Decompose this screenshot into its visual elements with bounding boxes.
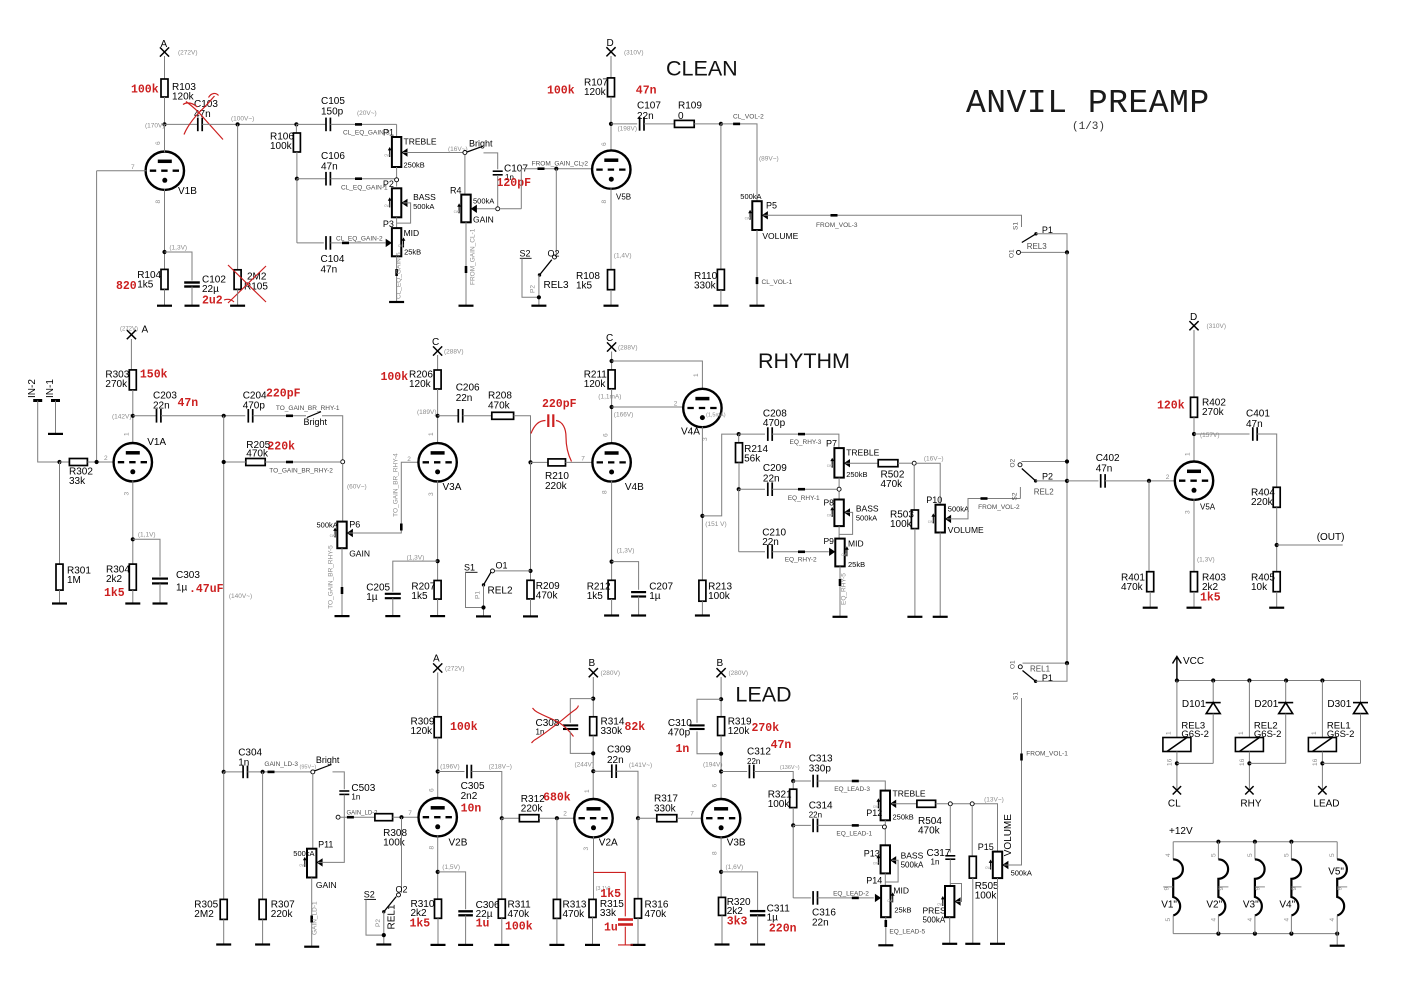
wire anode node to C107 series <box>611 123 637 125</box>
svg-text:P2: P2 <box>383 179 394 189</box>
node A supply (rhythm) <box>127 330 136 339</box>
svg-text:G6S-2: G6S-2 <box>1181 729 1208 740</box>
wire P10 bottom ground <box>939 533 941 617</box>
svg-text:GAIN: GAIN <box>473 215 494 225</box>
ground P6 <box>335 615 350 617</box>
node D supply (clean) <box>606 47 615 56</box>
svg-text:C107: C107 <box>637 101 661 112</box>
svg-text:P9: P9 <box>824 536 835 546</box>
svg-text:500kA: 500kA <box>293 849 314 858</box>
wire C306 ground <box>465 915 467 945</box>
svg-text:D: D <box>1190 312 1197 323</box>
svg-text:100k: 100k <box>547 85 575 98</box>
wire C207 ground <box>638 597 640 616</box>
svg-text:LEAD: LEAD <box>1313 799 1339 810</box>
potentiometer P5 VOLUME (clean) <box>752 201 761 230</box>
svg-text:TREBLE: TREBLE <box>846 448 879 458</box>
wire V1B anode <box>164 124 166 152</box>
wire REL2 coil to diode anode <box>1248 752 1250 791</box>
svg-text:cw: cw <box>928 519 934 524</box>
potentiometer P12 TREBLE (lead) <box>881 791 890 821</box>
switch relay contact REL1/P1 (lead right) <box>1018 665 1022 669</box>
svg-text:1: 1 <box>1238 731 1245 735</box>
svg-text:5: 5 <box>1247 853 1254 857</box>
svg-text:A: A <box>142 325 149 336</box>
svg-text:REL1: REL1 <box>1030 665 1051 674</box>
svg-text:V3B: V3B <box>727 838 746 849</box>
wire R110 ground <box>720 290 722 306</box>
wire OUT <box>1277 544 1343 546</box>
wire P2 wiper tie <box>397 203 411 223</box>
svg-text:1u: 1u <box>604 922 618 935</box>
svg-text:220k: 220k <box>267 441 295 454</box>
svg-text:cw: cw <box>299 862 305 867</box>
svg-text:1: 1 <box>693 373 700 377</box>
svg-text:B: B <box>717 658 724 669</box>
svg-text:D: D <box>607 38 614 49</box>
wire P8 wiper tie <box>839 512 853 534</box>
resistor R319 <box>718 717 725 736</box>
svg-text:REL1: REL1 <box>387 904 398 929</box>
potentiometer P15 VOLUME (lead) <box>993 852 1002 879</box>
wire R321 to row2 <box>792 808 794 826</box>
resistor R205 <box>246 459 265 466</box>
svg-text:1n: 1n <box>536 728 545 737</box>
svg-text:100k: 100k <box>131 84 159 97</box>
wire R209 ground <box>530 599 532 617</box>
node 198V junction <box>609 122 613 126</box>
svg-text:8: 8 <box>601 200 608 204</box>
wire P1 wiper to bright node <box>403 152 462 154</box>
capacitor C103 (crossed out) <box>198 118 202 132</box>
ground C303 <box>153 602 168 604</box>
wire P11 top <box>312 774 314 849</box>
wire C303 ground <box>159 584 161 604</box>
potentiometer P1 TREBLE <box>392 137 401 167</box>
svg-text:470k: 470k <box>246 449 269 460</box>
wire R315 ground <box>592 917 594 945</box>
wire P11 wiper tie to C503 node <box>318 817 344 862</box>
svg-text:FROM_GAIN_CL-1: FROM_GAIN_CL-1 <box>470 228 477 285</box>
svg-text:V4A: V4A <box>681 427 700 438</box>
svg-text:2: 2 <box>563 811 567 818</box>
capacitor C317 <box>945 856 955 859</box>
red mod electrolytic 1u on cathode <box>594 872 634 945</box>
svg-text:22n: 22n <box>763 474 780 485</box>
svg-text:120pF: 120pF <box>497 177 532 190</box>
svg-text:(60V~): (60V~) <box>347 484 367 491</box>
svg-text:S1: S1 <box>464 563 475 573</box>
svg-text:(142V): (142V) <box>112 414 132 421</box>
svg-text:FROM_VOL-2: FROM_VOL-2 <box>978 504 1020 511</box>
wire REL1 node down <box>401 817 403 893</box>
wire R110 down <box>720 124 722 270</box>
svg-text:P15: P15 <box>978 842 994 852</box>
svg-text:C401: C401 <box>1246 409 1270 420</box>
svg-text:cw: cw <box>873 860 879 865</box>
node 1,3V junction <box>436 559 440 563</box>
svg-text:P12: P12 <box>866 808 882 818</box>
resistor R212 <box>608 580 615 599</box>
wire cathode to C303 <box>133 539 160 576</box>
wire PRES bottom ground <box>949 917 951 944</box>
svg-text:9: 9 <box>1291 887 1298 891</box>
capacitor C401 <box>1253 427 1257 441</box>
node A supply (clean) <box>160 47 169 56</box>
wire junction to R305 <box>223 772 225 900</box>
wire R103 to node 170V <box>164 97 166 150</box>
svg-text:C: C <box>432 337 439 348</box>
svg-text:(272V): (272V) <box>445 666 465 673</box>
capacitor C309 <box>612 764 616 778</box>
ground R4 <box>459 305 474 307</box>
diode D301 <box>1360 681 1362 703</box>
wire rail down to REL2 node <box>530 462 532 580</box>
svg-text:5: 5 <box>1283 853 1290 857</box>
svg-text:250kB: 250kB <box>404 161 425 170</box>
svg-text:1n: 1n <box>931 858 940 867</box>
svg-text:4: 4 <box>1329 918 1336 922</box>
svg-text:C303: C303 <box>176 570 200 581</box>
wire C402 to V5A grid <box>1105 480 1176 482</box>
resistor R110 <box>717 269 724 290</box>
svg-text:16: 16 <box>1312 758 1319 766</box>
svg-text:22n: 22n <box>153 401 170 412</box>
node 166V junction <box>610 405 614 409</box>
svg-text:(198V): (198V) <box>618 126 638 133</box>
svg-text:25kB: 25kB <box>894 906 911 915</box>
wire anode to C305 <box>438 771 465 773</box>
svg-text:P1: P1 <box>475 591 482 599</box>
svg-text:P5: P5 <box>766 201 777 211</box>
wire C210 to P9 wiper with net EQ_RHY-2 <box>772 551 829 553</box>
svg-text:470p: 470p <box>668 728 691 739</box>
svg-text:(157V): (157V) <box>1200 432 1220 439</box>
capacitor C106 <box>297 178 326 180</box>
switch REL3 (clean mute) <box>553 255 557 259</box>
wire R206 to anode <box>437 389 439 444</box>
svg-text:120k: 120k <box>409 379 432 390</box>
svg-text:CL_EQ_GAIN-5: CL_EQ_GAIN-5 <box>396 252 403 299</box>
resistor R303 <box>129 370 136 390</box>
wire R505 branch <box>971 806 973 857</box>
wire bright node down to R4 <box>464 155 466 195</box>
svg-text:G6S-2: G6S-2 <box>1327 729 1354 740</box>
svg-text:GAIN_LD-1: GAIN_LD-1 <box>312 901 319 935</box>
wire C104 to P3 wiper with net CL_EQ_GAIN-2 <box>330 242 385 244</box>
wire R210 to V4B grid <box>566 461 593 463</box>
svg-text:7: 7 <box>408 810 412 817</box>
triode V5A <box>1175 462 1213 500</box>
ground R110 <box>713 305 728 307</box>
ground R213 <box>695 614 710 616</box>
resistor R401 <box>1147 572 1154 592</box>
svg-text:100k: 100k <box>975 891 998 902</box>
svg-text:EQ_RHY-1: EQ_RHY-1 <box>788 495 820 502</box>
capacitor C204 <box>248 409 252 423</box>
node 244V junction <box>591 769 595 773</box>
wire node to R205 <box>224 461 246 463</box>
svg-text:120k: 120k <box>411 726 434 737</box>
svg-text:470p: 470p <box>763 418 786 429</box>
ground P10 <box>933 616 948 618</box>
wire FROM_GAIN_CL-2 to V5B grid <box>521 168 593 170</box>
wire R316 down <box>637 818 639 899</box>
wire R210 row <box>531 461 549 463</box>
svg-text:cw: cw <box>454 209 460 214</box>
wire R109 to CL_VOL-2 node <box>694 123 721 125</box>
svg-text:REL3: REL3 <box>1027 242 1048 251</box>
svg-text:470k: 470k <box>563 909 586 920</box>
potentiometer P3 MID <box>392 228 401 256</box>
svg-text:FROM_VOL-3: FROM_VOL-3 <box>816 222 858 229</box>
wire R301 down <box>59 462 61 564</box>
svg-text:1: 1 <box>1311 731 1318 735</box>
wire cathode node to C102 <box>165 252 193 281</box>
wire C401 to R404 <box>1257 434 1277 487</box>
ground PRES <box>942 943 957 945</box>
wire C204 to bright rhythm with net TO_GAIN_BR_RHY-1 <box>253 415 306 417</box>
svg-text:S1: S1 <box>1013 692 1020 700</box>
svg-text:V5B: V5B <box>616 193 631 202</box>
node R314 bottom junction <box>591 751 595 755</box>
capacitor C503 <box>339 791 349 794</box>
svg-text:100k: 100k <box>768 799 791 810</box>
svg-text:+12V: +12V <box>1169 826 1193 837</box>
wire heater top bus <box>1173 841 1337 843</box>
ground C102 <box>185 305 200 307</box>
wire D to R402 <box>1193 330 1195 397</box>
ground REL1 <box>376 943 391 945</box>
svg-text:V4B: V4B <box>625 482 644 493</box>
capacitor C107 shunt 120pF <box>493 171 503 175</box>
wire R105 to ground <box>237 289 239 305</box>
wire node to C103 <box>165 123 198 125</box>
svg-text:(100V~): (100V~) <box>231 116 254 123</box>
svg-text:1µ: 1µ <box>366 592 378 603</box>
svg-text:(1,6V): (1,6V) <box>726 864 744 871</box>
wire long vertical to LEAD <box>223 416 225 772</box>
svg-text:2: 2 <box>104 455 108 462</box>
potentiometer P13 BASS (lead) <box>884 820 886 845</box>
svg-text:CL_EQ_GAIN-1: CL_EQ_GAIN-1 <box>341 185 388 192</box>
svg-text:V1": V1" <box>1161 900 1177 911</box>
svg-text:R109: R109 <box>678 101 702 112</box>
svg-text:IN-1: IN-1 <box>45 379 56 398</box>
svg-text:P1: P1 <box>1042 673 1053 683</box>
wire V5A cathode <box>1193 499 1195 571</box>
wire VCC bus <box>1177 680 1361 682</box>
capacitor C304 <box>224 771 243 773</box>
svg-text:(288V): (288V) <box>618 345 638 352</box>
wire R205 to P6 rail with net TO_GAIN_BR_RHY-2 <box>265 461 341 463</box>
bypass wire C310 bottom <box>697 731 721 753</box>
svg-text:2n2: 2n2 <box>461 791 478 802</box>
wire anode to C309 <box>593 770 612 772</box>
svg-text:V2B: V2B <box>449 838 468 849</box>
svg-text:500kA: 500kA <box>901 861 924 870</box>
wire C206 to R208 <box>463 415 492 417</box>
node bright-lead open <box>311 770 315 774</box>
svg-text:V1A: V1A <box>147 437 166 448</box>
ground R108 <box>604 305 619 307</box>
svg-text:MID: MID <box>848 539 864 549</box>
svg-text:VOLUME: VOLUME <box>762 231 798 241</box>
capacitor C306 electrolytic <box>458 911 473 915</box>
svg-text:TO_GAIN_BR_RHY-1: TO_GAIN_BR_RHY-1 <box>276 405 340 412</box>
svg-text:EQ_RHY-3: EQ_RHY-3 <box>790 439 822 446</box>
ground R403 <box>1187 607 1202 609</box>
wire input row to R302 <box>60 461 70 463</box>
wire R307 ground <box>262 919 264 944</box>
svg-text:C312: C312 <box>747 747 771 758</box>
node 194V junction <box>719 769 723 773</box>
wire REL3 coil to diode anode <box>1176 752 1178 791</box>
resistor R305 <box>220 899 227 919</box>
ground R505 <box>965 943 980 945</box>
rhythm EQ ladder row 3 C210 <box>739 551 765 553</box>
svg-text:CL_VOL-1: CL_VOL-1 <box>762 279 793 286</box>
wire R316 ground <box>637 918 639 945</box>
svg-text:6: 6 <box>712 784 719 788</box>
svg-text:VOLUME: VOLUME <box>948 525 984 535</box>
relay coil REL3 G6S-2 <box>1176 681 1178 738</box>
wire A to R303 <box>130 339 132 370</box>
node R316 junction <box>636 816 640 820</box>
capacitor C102 electrolytic <box>184 283 200 287</box>
node 142V junction <box>131 414 135 418</box>
wire P13 bottom to P14 <box>884 873 886 886</box>
svg-text:MID: MID <box>893 886 909 896</box>
resistor R320 <box>719 897 726 915</box>
wire V5B cathode <box>610 188 612 269</box>
svg-text:100k: 100k <box>708 591 731 602</box>
svg-text:1u: 1u <box>476 918 490 931</box>
svg-text:150p: 150p <box>321 107 344 118</box>
node 196V junction <box>436 769 440 773</box>
ground R304 <box>125 602 140 604</box>
svg-text:4: 4 <box>1165 853 1172 857</box>
resistor R502 <box>878 460 898 467</box>
svg-text:1: 1 <box>124 432 131 436</box>
svg-text:270k: 270k <box>1202 407 1225 418</box>
resistor R312 <box>502 817 520 819</box>
svg-text:TREBLE: TREBLE <box>404 137 437 147</box>
switch Bright (clean) <box>467 146 483 152</box>
svg-text:220k: 220k <box>545 481 568 492</box>
wire C205 ground <box>392 598 394 616</box>
svg-text:P11: P11 <box>318 840 333 850</box>
ground R212 <box>604 614 619 616</box>
wire V2A cathode <box>593 837 595 900</box>
resistor R304 <box>129 564 136 590</box>
svg-text:100k: 100k <box>505 921 533 934</box>
wire R401 down <box>1148 481 1150 572</box>
resistor R211 <box>608 370 615 389</box>
ground IN-1 <box>48 433 63 435</box>
wire R317 to V3B grid <box>677 817 703 819</box>
capacitor C313 <box>813 775 817 788</box>
wire R405 ground <box>1276 592 1278 608</box>
svg-text:3: 3 <box>583 847 590 851</box>
svg-text:1k5: 1k5 <box>1200 592 1221 605</box>
svg-text:P2: P2 <box>530 285 537 293</box>
node C204 junction <box>222 414 226 418</box>
svg-text:470k: 470k <box>488 401 511 412</box>
wire C103 to node 100V <box>202 123 296 125</box>
svg-text:820: 820 <box>116 280 137 293</box>
capacitor C312 <box>749 765 753 779</box>
svg-text:P2: P2 <box>375 919 382 927</box>
svg-text:9: 9 <box>1254 887 1261 891</box>
svg-text:V3A: V3A <box>443 482 462 493</box>
ground R503 <box>907 616 922 618</box>
svg-text:(280V): (280V) <box>729 670 749 677</box>
resistor R309 <box>434 717 441 738</box>
svg-text:5: 5 <box>1329 853 1336 857</box>
svg-text:cw: cw <box>827 463 833 468</box>
node 157V junction <box>1192 432 1196 436</box>
svg-text:(1,5mA): (1,5mA) <box>706 412 726 418</box>
potentiometer P7 TREBLE (rhythm) <box>834 448 843 478</box>
svg-text:GAIN_LD-2: GAIN_LD-2 <box>347 811 379 817</box>
capacitor C311 electrolytic <box>750 911 765 915</box>
svg-text:2M2: 2M2 <box>194 909 214 920</box>
svg-text:S2: S2 <box>364 890 375 900</box>
potentiometer P2 BASS <box>392 188 401 217</box>
wire R404 to OUT node <box>1276 507 1278 571</box>
svg-text:(272V): (272V) <box>178 50 198 57</box>
svg-text:(16V~): (16V~) <box>924 456 944 463</box>
ground R311 <box>494 944 509 946</box>
capacitor C303 <box>152 579 168 584</box>
svg-text:(189V): (189V) <box>417 409 437 416</box>
svg-text:(310V): (310V) <box>624 50 644 57</box>
svg-text:2: 2 <box>407 456 411 463</box>
svg-text:TO_GAIN_BR_RHY-4: TO_GAIN_BR_RHY-4 <box>393 453 400 517</box>
node 189V junction <box>436 414 440 418</box>
ground R105 <box>230 305 245 307</box>
svg-text:120k: 120k <box>728 726 751 737</box>
svg-text:1: 1 <box>1185 452 1192 456</box>
svg-text:(1/3): (1/3) <box>1072 121 1105 133</box>
wire R302 to V1A grid <box>87 461 114 463</box>
resistor R301 <box>56 564 63 590</box>
wire R307 down <box>262 772 264 900</box>
heater V2 filament <box>1217 842 1219 860</box>
svg-text:VOLUME: VOLUME <box>1003 814 1014 857</box>
svg-text:.47uF: .47uF <box>189 583 224 596</box>
svg-text:4: 4 <box>1247 918 1254 922</box>
resistor R310 <box>435 899 442 918</box>
svg-text:7: 7 <box>131 164 135 171</box>
node LEAD output X <box>1318 786 1326 794</box>
svg-text:(OUT): (OUT) <box>1317 532 1345 543</box>
wire R211 to 166V node <box>611 389 613 444</box>
capacitor C316 <box>793 897 811 899</box>
wire R314 to anode node <box>592 736 594 800</box>
svg-text:9: 9 <box>1164 887 1171 891</box>
resistor R311 <box>498 899 505 918</box>
node R313 junction <box>555 816 559 820</box>
capacitor C206 <box>458 409 462 423</box>
capacitor C207 <box>631 592 646 596</box>
wire node to P10 <box>916 463 940 505</box>
svg-text:47n: 47n <box>636 85 657 98</box>
resistor R307 <box>259 899 266 919</box>
resistor R317 <box>638 817 657 819</box>
ground R405 <box>1269 607 1284 609</box>
